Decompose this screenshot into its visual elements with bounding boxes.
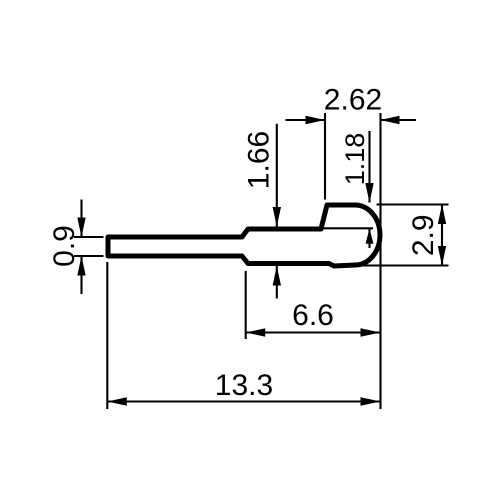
svg-text:0.9: 0.9 — [48, 225, 81, 267]
svg-text:1.66: 1.66 — [243, 131, 276, 189]
svg-text:2.9: 2.9 — [407, 214, 440, 256]
svg-text:13.3: 13.3 — [215, 369, 273, 402]
svg-text:2.62: 2.62 — [324, 84, 382, 117]
svg-text:6.6: 6.6 — [292, 299, 334, 332]
svg-text:1.18: 1.18 — [340, 133, 370, 186]
